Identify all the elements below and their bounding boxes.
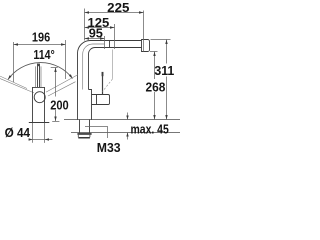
svg-text:max. 45: max. 45	[131, 121, 169, 136]
dimension 311: dimension line	[166, 40, 168, 120]
countertop top line	[64, 119, 180, 121]
dimension D44: left arrow (points right)	[29, 138, 33, 140]
dimension 200: bottom extension tick	[52, 120, 59, 122]
side view: lever cartridge box	[92, 95, 110, 105]
dimension 196: left extension line	[13, 42, 15, 82]
dimension 125: dimension line	[85, 27, 115, 29]
dimension 311: extension line at spout top	[151, 39, 171, 41]
side view: handle closed position	[102, 76, 104, 95]
countertop bottom line	[71, 132, 180, 134]
side view: tube seam	[109, 41, 111, 48]
M33 leader line	[85, 127, 108, 139]
shank nut flange	[77, 133, 91, 135]
front view: phantom spout left position	[0, 76, 34, 93]
dimension D44: dimension line	[29, 139, 53, 141]
dimension 200: top extension tick	[51, 67, 58, 69]
svg-text:311: 311	[154, 63, 174, 78]
dimension 200: bottom arrow	[54, 117, 56, 122]
side view: inner bend of spout	[89, 48, 142, 90]
dimension 268: extension line at outlet	[150, 51, 158, 53]
dimension 125: extension line	[114, 24, 116, 49]
side view: body step	[89, 90, 92, 121]
dimension 196: right arrow	[61, 43, 66, 45]
dimension 268: bottom arrow	[153, 115, 155, 120]
front view: spout tube outer lines	[36, 66, 42, 87]
dimension 225: left arrow	[85, 11, 90, 13]
svg-text:200: 200	[50, 97, 68, 112]
dimension 125: right arrow	[110, 26, 115, 28]
dimension 196: dimension line	[14, 44, 66, 46]
dimension 225: right arrow	[139, 11, 144, 13]
side view: handle knob	[102, 72, 104, 76]
dimension D44: left extension line	[32, 123, 34, 143]
dimension 225: extension line at head end	[143, 11, 145, 52]
svg-text:268: 268	[146, 80, 166, 95]
dimension max.45: lower dimension line and arrow	[127, 133, 129, 140]
side view: lever joint line	[96, 95, 98, 105]
dimension 95: dimension line	[85, 38, 105, 40]
front view: spout tip block	[37, 64, 40, 67]
shank nut bottom	[78, 137, 90, 139]
front view: base line	[29, 122, 50, 124]
front view: phantom spout right position	[46, 75, 78, 96]
svg-text:114°: 114°	[33, 47, 54, 62]
svg-text:M33: M33	[97, 140, 121, 155]
dimension 196: left arrow	[14, 43, 19, 45]
dimension 95: left arrow	[85, 37, 90, 39]
dimension 311: bottom arrow	[165, 115, 167, 120]
front view: ball joint circle	[34, 92, 45, 103]
dimension 225: extension line at faucet axis	[84, 9, 86, 41]
dimension 196: right extension line	[65, 40, 67, 79]
dimension 225: dimension line	[85, 12, 144, 14]
side view: handle open phantom line	[112, 50, 114, 79]
svg-text:95: 95	[89, 26, 103, 41]
dimension 268: top arrow	[153, 52, 155, 57]
dimension D44: right extension line	[44, 123, 46, 143]
side view: handle open phantom dashes	[103, 79, 113, 92]
svg-text:225: 225	[107, 0, 129, 15]
dimension 95: right arrow	[100, 37, 105, 39]
arc right arrowhead	[69, 74, 73, 78]
front view: spout tube inner pipes	[38, 64, 40, 88]
threaded shank	[80, 120, 90, 134]
svg-text:196: 196	[32, 29, 50, 44]
front view: body column	[33, 87, 45, 122]
dimension 200: top arrow	[54, 68, 56, 73]
dimension D44: right arrow (points left)	[45, 138, 49, 140]
side view: faucet body column	[78, 41, 142, 121]
arc left arrowhead	[8, 75, 12, 79]
front view: swivel arc 114deg	[8, 63, 73, 80]
dimension 200: dimension line	[55, 68, 57, 122]
spray head	[142, 40, 150, 52]
dimension 125: left arrow	[85, 26, 90, 28]
dimension max.45: upper dimension line and arrow	[127, 113, 129, 120]
side view: pull-out hose line	[83, 44, 105, 90]
dimension 268: dimension line	[154, 52, 156, 120]
shank nut body	[78, 135, 90, 138]
dimension 311: top arrow	[165, 40, 167, 45]
dimension 95: extension line	[104, 36, 106, 49]
svg-text:Ø 44: Ø 44	[5, 125, 31, 140]
